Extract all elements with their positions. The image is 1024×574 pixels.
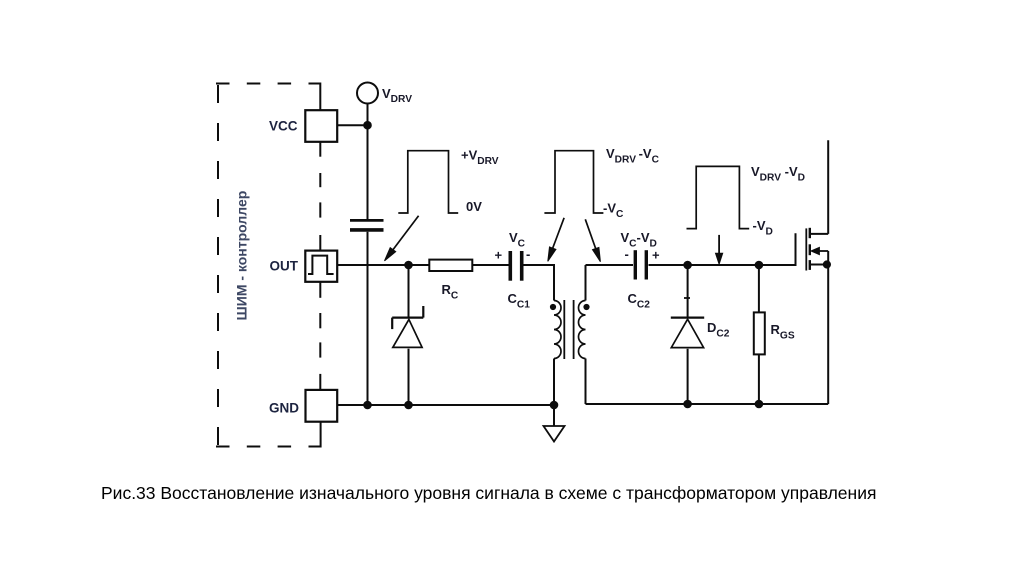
MOSFET Q1 (806, 140, 830, 404)
svg-text:VDRV -VC: VDRV -VC (606, 146, 660, 166)
pin box GND (306, 390, 338, 422)
ground symbol (544, 405, 565, 442)
node VCC junction dot (364, 122, 371, 129)
zener diode below RC (392, 265, 423, 404)
svg-text:+VDRV: +VDRV (461, 148, 499, 168)
resistor RC (429, 260, 472, 271)
svg-text:+: + (652, 248, 660, 263)
wire CC1 to transformer primary top (524, 265, 555, 301)
svg-text:OUT: OUT (270, 259, 299, 274)
capacitor CC2 plates (635, 250, 646, 279)
dashed pin connector OUT-GND (319, 282, 321, 390)
svg-text:-: - (526, 247, 530, 262)
VDRV supply circle (357, 83, 378, 104)
PWM controller dashed box top edge (216, 84, 320, 111)
secondary polarity dot (583, 304, 589, 310)
node RGS junction (756, 262, 763, 269)
transformer core (564, 300, 573, 359)
wire VCC to VDRV line (337, 124, 367, 126)
arrow to primary top (548, 218, 564, 261)
caption (101, 483, 876, 504)
wire main rail OUT to RC (337, 264, 429, 266)
svg-text:-VD: -VD (753, 218, 773, 238)
transformer primary winding (554, 301, 561, 359)
node RC/zener junction (405, 262, 412, 269)
svg-text:+: + (495, 248, 503, 263)
wire primary bottom (553, 359, 555, 406)
svg-text:VCC: VCC (269, 119, 298, 134)
capacitor CC1 plates (510, 251, 521, 281)
PWM controller dashed box left edge (217, 85, 219, 446)
wire RC to CC1 (472, 264, 508, 266)
wire secondary bottom (585, 359, 587, 405)
svg-text:VDRV: VDRV (382, 86, 412, 105)
svg-text:RGS: RGS (771, 322, 795, 342)
wire VDRV circle to junction (367, 104, 369, 220)
svg-text:0V: 0V (466, 199, 482, 214)
svg-text:ШИМ - контроллер: ШИМ - контроллер (234, 191, 250, 321)
node DC2 junction (684, 262, 691, 269)
primary polarity dot (550, 304, 556, 310)
pin box OUT (305, 251, 337, 282)
PWM controller dashed box bottom edge (216, 422, 321, 447)
transformer secondary winding (579, 301, 586, 359)
OUT pulse glyph (308, 256, 334, 274)
bottom rail right (secondary side) (586, 403, 829, 405)
pin box VCC (305, 110, 337, 142)
svg-text:VDRV -VD: VDRV -VD (751, 164, 805, 184)
vertical arrow to gate rail (716, 235, 723, 264)
node dots bottom right (684, 401, 762, 408)
arrow to OUT node (385, 216, 419, 261)
waveform 1 pulse (398, 151, 458, 213)
arrow to secondary top (585, 219, 600, 261)
wire secondary top (585, 265, 587, 301)
svg-text:CC2: CC2 (628, 291, 651, 311)
svg-text:RC: RC (442, 282, 459, 302)
svg-text:GND: GND (269, 401, 299, 416)
node dots bottom left (364, 402, 557, 409)
wire secondary rail to CC2 (586, 264, 634, 266)
capacitor decoupling plates (350, 220, 384, 230)
resistor RGS (754, 265, 765, 404)
svg-text:VC: VC (509, 230, 526, 250)
waveform 2 pulse (544, 151, 603, 213)
dashed pin connector VCC-OUT (319, 142, 321, 251)
wire CC2 to gate riser (649, 233, 796, 265)
svg-text:DC2: DC2 (707, 320, 730, 340)
bottom rail left (controller ground) (337, 404, 554, 406)
svg-text:CC1: CC1 (508, 291, 531, 311)
diode DC2 (671, 265, 704, 404)
svg-text:-: - (625, 247, 629, 262)
waveform 3 pulse (687, 166, 750, 228)
wire cap to bottom rail (367, 232, 369, 404)
svg-text:-VC: -VC (603, 201, 624, 221)
